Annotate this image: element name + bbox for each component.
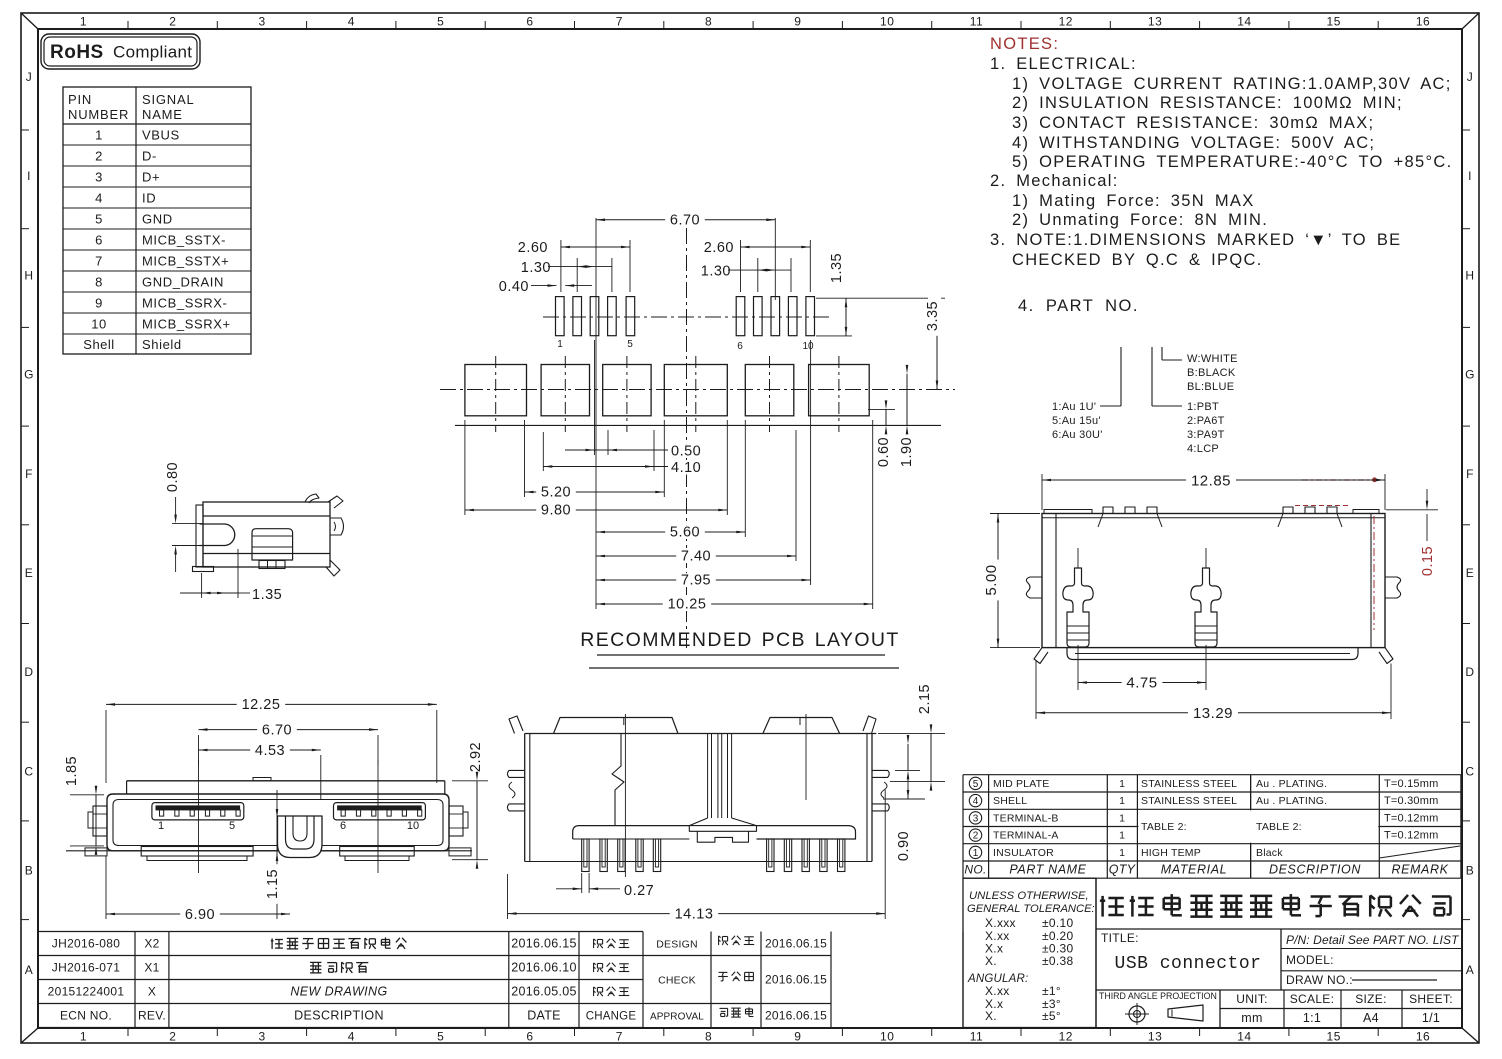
svg-text:2:PA6T: 2:PA6T	[1187, 415, 1225, 427]
svg-text:X.: X.	[985, 954, 997, 968]
svg-text:T=0.15mm: T=0.15mm	[1384, 778, 1438, 790]
svg-text:Au . PLATING.: Au . PLATING.	[1256, 795, 1327, 807]
dim 12.85	[1041, 474, 1043, 510]
svg-text:6: 6	[340, 820, 346, 832]
rear view solder post left	[1063, 568, 1093, 647]
rear view corner feet	[1034, 648, 1048, 664]
front view right ear	[449, 806, 463, 836]
svg-text:11: 11	[970, 1030, 983, 1044]
side view bottom right claw	[326, 560, 340, 576]
svg-text:9: 9	[95, 296, 103, 311]
svg-text:E: E	[25, 566, 34, 580]
svg-text:SIZE:: SIZE:	[1355, 992, 1387, 1006]
svg-text:2: 2	[169, 15, 176, 29]
svg-text:5: 5	[95, 212, 103, 227]
projection cell	[1096, 989, 1461, 991]
svg-text:NO.: NO.	[964, 863, 986, 877]
svg-text:5: 5	[627, 339, 633, 350]
front view shell	[107, 794, 449, 851]
svg-text:GENERAL TOLERANCE:: GENERAL TOLERANCE:	[967, 903, 1095, 915]
svg-text:MICB_SSTX-: MICB_SSTX-	[142, 233, 226, 248]
front view left ear	[93, 806, 107, 836]
rear view right clip	[1385, 577, 1401, 598]
svg-text:SIGNAL: SIGNAL	[142, 92, 194, 107]
svg-text:QTY: QTY	[1109, 863, 1137, 877]
svg-text:MATERIAL: MATERIAL	[1161, 863, 1227, 877]
rear view body	[1042, 514, 1385, 648]
dim 2.60 left	[560, 240, 562, 292]
svg-text:4.53: 4.53	[255, 743, 285, 759]
side view tongue	[200, 524, 235, 546]
dim 0.27	[581, 873, 583, 893]
svg-text:MICB_SSRX-: MICB_SSRX-	[142, 296, 227, 311]
side view contact block	[252, 529, 293, 560]
svg-text:13: 13	[1148, 15, 1162, 29]
svg-text:1: 1	[95, 128, 103, 143]
svg-text:INSULATOR: INSULATOR	[993, 847, 1054, 859]
bottom view center bridge	[707, 734, 709, 819]
title cell	[1096, 928, 1461, 930]
svg-text:Au . PLATING.: Au . PLATING.	[1256, 778, 1327, 790]
svg-text:10: 10	[802, 341, 814, 352]
svg-text:2: 2	[95, 149, 103, 164]
dim 2.60 right	[740, 240, 742, 292]
svg-text:RECOMMENDED PCB LAYOUT: RECOMMENDED PCB LAYOUT	[580, 629, 899, 651]
unit scale size sheet	[1283, 990, 1285, 1028]
bottom view top plateaus	[554, 718, 679, 734]
svg-text:1: 1	[973, 848, 979, 859]
svg-text:9: 9	[794, 1030, 801, 1044]
svg-text:1.90: 1.90	[899, 437, 915, 467]
svg-text:1.30: 1.30	[521, 260, 551, 276]
dim 4.53 front	[320, 755, 322, 800]
svg-text:X.xx: X.xx	[985, 984, 1010, 998]
svg-text:9: 9	[794, 15, 801, 29]
svg-text:TABLE 2:: TABLE 2:	[1256, 821, 1302, 833]
svg-text:10: 10	[407, 820, 419, 832]
dim 12.25 front	[105, 710, 107, 783]
svg-text:1:Au 1U': 1:Au 1U'	[1052, 401, 1096, 413]
svg-text:MID PLATE: MID PLATE	[993, 778, 1049, 790]
dim 6.70 top	[595, 218, 597, 300]
svg-text:20151224001: 20151224001	[48, 985, 125, 999]
dim 7.40	[795, 430, 797, 561]
svg-text:0.90: 0.90	[896, 831, 912, 861]
svg-text:NEW DRAWING: NEW DRAWING	[290, 985, 387, 999]
svg-text:5.20: 5.20	[541, 485, 571, 501]
svg-text:2.92: 2.92	[468, 742, 484, 772]
svg-text:T=0.12mm: T=0.12mm	[1384, 830, 1438, 842]
side view body	[203, 502, 330, 567]
side view right clip	[330, 518, 344, 535]
dim 5.00	[990, 513, 1040, 515]
rear view red revision marks	[1295, 505, 1350, 507]
svg-text:4: 4	[348, 1030, 355, 1044]
svg-text:H: H	[1465, 268, 1474, 282]
side view foot	[193, 567, 214, 572]
svg-text:GND_DRAIN: GND_DRAIN	[142, 275, 224, 290]
svg-text:5.60: 5.60	[670, 525, 700, 541]
svg-text:J: J	[1467, 70, 1474, 84]
svg-text:NUMBER: NUMBER	[68, 107, 129, 122]
square centerlines	[495, 356, 497, 432]
svg-text:X1: X1	[144, 961, 159, 975]
svg-text:DESIGN: DESIGN	[656, 939, 697, 951]
bottom view left notch	[612, 734, 624, 827]
svg-text:1:1: 1:1	[1303, 1011, 1321, 1025]
svg-text:B: B	[25, 864, 34, 878]
svg-text:4.75: 4.75	[1126, 675, 1157, 692]
svg-text:3: 3	[973, 813, 979, 824]
svg-text:2.15: 2.15	[917, 684, 933, 714]
svg-text:VBUS: VBUS	[142, 128, 180, 143]
svg-text:5.00: 5.00	[983, 564, 1000, 595]
svg-text:T=0.30mm: T=0.30mm	[1384, 795, 1438, 807]
svg-text:1.85: 1.85	[64, 756, 80, 786]
dim 5.20	[524, 420, 526, 497]
svg-text:±1°: ±1°	[1042, 984, 1061, 998]
dim 0.90	[895, 769, 920, 771]
svg-text:3: 3	[95, 170, 103, 185]
svg-text:RoHS: RoHS	[50, 42, 104, 63]
svg-text:4: 4	[348, 15, 355, 29]
svg-text:10: 10	[880, 15, 894, 29]
svg-text:1.35: 1.35	[252, 587, 282, 603]
front view top plate	[127, 780, 445, 782]
svg-text:6.70: 6.70	[262, 723, 292, 739]
svg-text:1: 1	[80, 15, 87, 29]
svg-text:7: 7	[616, 15, 623, 29]
parts list table	[963, 774, 1461, 776]
svg-text:X.: X.	[985, 1009, 997, 1023]
dim 0.50	[594, 340, 596, 455]
svg-text:mm: mm	[1241, 1011, 1262, 1025]
svg-text:3.35: 3.35	[925, 301, 941, 331]
bottom view teeth right	[767, 839, 774, 872]
svg-text:DESCRIPTION: DESCRIPTION	[1269, 863, 1361, 877]
svg-text:1: 1	[557, 339, 563, 350]
svg-text:A: A	[25, 963, 34, 977]
svg-text:I: I	[1468, 169, 1472, 183]
svg-text:D: D	[1465, 665, 1474, 679]
svg-text:6: 6	[526, 1030, 533, 1044]
svg-text:1.15: 1.15	[265, 869, 281, 899]
svg-text:2) INSULATION RESISTANCE: 100M: 2) INSULATION RESISTANCE: 100MΩ MIN;	[1012, 94, 1403, 112]
svg-text:SCALE:: SCALE:	[1290, 992, 1335, 1006]
dim 3.35	[852, 297, 945, 299]
svg-text:F: F	[1466, 467, 1474, 481]
svg-text:12: 12	[1059, 15, 1073, 29]
svg-text:CHANGE: CHANGE	[586, 1011, 637, 1023]
svg-text:PART NAME: PART NAME	[1009, 863, 1086, 877]
svg-text:STAINLESS STEEL: STAINLESS STEEL	[1141, 795, 1237, 807]
svg-text:I: I	[27, 169, 31, 183]
svg-text:1:PBT: 1:PBT	[1187, 401, 1219, 413]
svg-text:1) VOLTAGE CURRENT RATING:1.0A: 1) VOLTAGE CURRENT RATING:1.0AMP,30V AC;	[1012, 75, 1452, 93]
pin signal table	[63, 87, 251, 354]
svg-text:14: 14	[1237, 15, 1251, 29]
svg-text:10: 10	[91, 317, 106, 332]
svg-text:8: 8	[95, 275, 103, 290]
bottom view centerlines	[624, 714, 626, 877]
svg-text:2. Mechanical:: 2. Mechanical:	[990, 172, 1119, 190]
svg-text:2016.06.15: 2016.06.15	[511, 937, 577, 951]
dim 9.80	[464, 420, 466, 515]
svg-text:TERMINAL-B: TERMINAL-B	[993, 813, 1059, 825]
dim 0.60	[868, 408, 895, 410]
svg-text:8: 8	[705, 1030, 712, 1044]
svg-text:JH2016-080: JH2016-080	[52, 937, 120, 951]
svg-text:NOTES:: NOTES:	[990, 35, 1059, 53]
pad centerline horizontal	[543, 316, 830, 318]
svg-text:15: 15	[1327, 15, 1341, 29]
dim 1.30 right	[757, 258, 759, 292]
svg-text:8: 8	[705, 15, 712, 29]
svg-text:1: 1	[1119, 813, 1125, 825]
svg-text:12.85: 12.85	[1191, 473, 1231, 490]
svg-text:3) CONTACT RESISTANCE: 30mΩ MA: 3) CONTACT RESISTANCE: 30mΩ MAX;	[1012, 114, 1374, 132]
svg-text:1) Mating Force: 35N MAX: 1) Mating Force: 35N MAX	[1012, 192, 1255, 210]
svg-text:B:BLACK: B:BLACK	[1187, 367, 1236, 379]
front view base line	[66, 850, 472, 852]
svg-text:1: 1	[158, 820, 164, 832]
svg-text:0.60: 0.60	[876, 437, 892, 467]
svg-text:6.90: 6.90	[185, 907, 215, 923]
svg-text:5:Au 15u': 5:Au 15u'	[1052, 415, 1101, 427]
svg-text:GND: GND	[142, 212, 173, 227]
svg-text:C: C	[24, 764, 33, 778]
svg-text:1: 1	[1119, 795, 1125, 807]
svg-text:3: 3	[259, 1030, 266, 1044]
svg-text:6.70: 6.70	[670, 213, 700, 229]
center axis vertical dashed	[686, 228, 688, 648]
svg-text:2: 2	[973, 831, 979, 842]
svg-text:SHEET:: SHEET:	[1409, 992, 1453, 1006]
svg-text:W:WHITE: W:WHITE	[1187, 353, 1238, 365]
svg-text:G: G	[24, 368, 34, 382]
svg-text:9.80: 9.80	[541, 503, 571, 519]
svg-text:B: B	[1466, 864, 1475, 878]
rear view bottom plate	[1067, 648, 1358, 660]
svg-text:USB connector: USB connector	[1115, 954, 1262, 974]
front view center bridge	[278, 816, 323, 858]
svg-text:TABLE 2:: TABLE 2:	[1141, 821, 1187, 833]
bottom view right pins	[872, 770, 889, 777]
svg-text:15: 15	[1327, 1030, 1341, 1044]
svg-text:7: 7	[616, 1030, 623, 1044]
svg-text:CHECK: CHECK	[658, 975, 696, 987]
svg-text:BL:BLUE: BL:BLUE	[1187, 381, 1234, 393]
part number legend tree	[1120, 347, 1122, 406]
svg-text:2.60: 2.60	[518, 240, 548, 256]
svg-text:X2: X2	[144, 937, 159, 951]
svg-text:7: 7	[95, 254, 103, 269]
svg-text:2016.06.15: 2016.06.15	[765, 973, 827, 987]
svg-text:P/N: Detail See PART NO. LIST: P/N: Detail See PART NO. LIST	[1286, 933, 1460, 947]
svg-text:A4: A4	[1363, 1011, 1379, 1025]
svg-text:TERMINAL-A: TERMINAL-A	[993, 830, 1059, 842]
svg-text:NAME: NAME	[142, 107, 183, 122]
dim 7.95	[810, 340, 812, 585]
dim 4.10	[542, 432, 544, 471]
mount squares	[465, 365, 527, 416]
svg-text:2.60: 2.60	[704, 240, 734, 256]
dim 10.25	[872, 420, 874, 609]
svg-text:Shell: Shell	[83, 337, 114, 352]
rear view top tabs	[1044, 510, 1092, 514]
svg-text:0.80: 0.80	[165, 462, 181, 492]
front view port 6-10	[334, 803, 426, 820]
svg-text:H: H	[24, 268, 33, 282]
front view port 1-5	[152, 803, 244, 820]
svg-text:DESCRIPTION: DESCRIPTION	[294, 1009, 384, 1023]
svg-text:J: J	[26, 70, 33, 84]
svg-text:1.30: 1.30	[701, 264, 731, 280]
svg-text:11: 11	[970, 15, 983, 29]
svg-text:12.25: 12.25	[242, 697, 281, 713]
tolerance box	[963, 878, 1096, 1027]
svg-text:4.10: 4.10	[671, 460, 701, 476]
svg-text:5) OPERATING TEMPERATURE:-40°C: 5) OPERATING TEMPERATURE:-40°C TO +85°C.	[1012, 153, 1452, 171]
dim 13.29	[1035, 660, 1037, 719]
svg-text:CHECKED BY Q.C & IPQC.: CHECKED BY Q.C & IPQC.	[1012, 251, 1263, 269]
svg-text:UNIT:: UNIT:	[1236, 992, 1268, 1006]
bottom view foot plates	[573, 826, 690, 839]
svg-text:SHELL: SHELL	[993, 795, 1027, 807]
svg-text:MODEL:: MODEL:	[1286, 953, 1334, 967]
svg-text:REMARK: REMARK	[1391, 863, 1448, 877]
dim 6.90 front	[105, 856, 107, 919]
svg-text:1: 1	[1119, 847, 1125, 859]
front view feet	[85, 848, 107, 856]
bottom view teeth left	[582, 839, 589, 872]
dim 6.70 front	[198, 735, 200, 765]
svg-text:1: 1	[1119, 830, 1125, 842]
svg-text:6: 6	[526, 15, 533, 29]
dim 1.35 pads	[816, 297, 852, 299]
svg-text:7.40: 7.40	[681, 549, 711, 565]
svg-text:DATE: DATE	[527, 1009, 561, 1023]
svg-text:1/1: 1/1	[1422, 1011, 1440, 1025]
svg-text:0.15: 0.15	[1420, 546, 1436, 576]
svg-text:6:Au 30U': 6:Au 30U'	[1052, 429, 1103, 441]
parts table circled numbers	[969, 777, 981, 789]
svg-text:ID: ID	[142, 191, 156, 206]
dim 5.60	[595, 300, 597, 609]
svg-text:MICB_SSRX+: MICB_SSRX+	[142, 317, 231, 332]
svg-text:ECN NO.: ECN NO.	[60, 1009, 112, 1023]
svg-text:HIGH TEMP: HIGH TEMP	[1141, 847, 1201, 859]
svg-text:4) WITHSTANDING VOLTAGE: 500V: 4) WITHSTANDING VOLTAGE: 500V AC;	[1012, 134, 1375, 152]
svg-text:THIRD ANGLE PROJECTION: THIRD ANGLE PROJECTION	[1099, 991, 1217, 1001]
svg-text:0.27: 0.27	[624, 883, 654, 899]
svg-text:±0.10: ±0.10	[1042, 916, 1073, 930]
svg-text:MICB_SSTX+: MICB_SSTX+	[142, 254, 229, 269]
svg-text:12: 12	[1059, 1030, 1073, 1044]
RoHS compliant badge	[41, 34, 200, 69]
svg-text:0.40: 0.40	[499, 279, 529, 295]
svg-text:5: 5	[973, 779, 979, 790]
svg-text:2016.06.15: 2016.06.15	[765, 937, 827, 951]
svg-text:DRAW NO.:: DRAW NO.:	[1286, 973, 1353, 987]
svg-text:D: D	[24, 665, 33, 679]
approval block	[710, 932, 712, 1028]
svg-text:3. NOTE:1.DIMENSIONS MARKED ‘▼: 3. NOTE:1.DIMENSIONS MARKED ‘▼’ TO BE	[990, 231, 1401, 249]
dim 1.90	[906, 374, 908, 426]
pcb edge line	[455, 424, 941, 426]
svg-text:3:PA9T: 3:PA9T	[1187, 429, 1225, 441]
svg-text:TITLE:: TITLE:	[1101, 931, 1139, 945]
revision chinese desc row2	[310, 961, 321, 963]
svg-text:3: 3	[259, 15, 266, 29]
svg-text:4. PART NO.: 4. PART NO.	[1018, 297, 1139, 315]
dim 1.30 left	[576, 258, 578, 292]
svg-text:2016.06.10: 2016.06.10	[511, 961, 577, 975]
svg-text:STAINLESS STEEL: STAINLESS STEEL	[1141, 778, 1237, 790]
svg-text:1.35: 1.35	[829, 253, 845, 283]
svg-text:±0.38: ±0.38	[1042, 954, 1073, 968]
svg-text:4: 4	[95, 191, 103, 206]
svg-text:5: 5	[437, 1030, 444, 1044]
svg-text:C: C	[1465, 764, 1474, 778]
svg-text:2: 2	[169, 1030, 176, 1044]
svg-text:1: 1	[80, 1030, 87, 1044]
svg-text:4: 4	[973, 796, 979, 807]
svg-text:14.13: 14.13	[675, 907, 714, 923]
svg-text:1: 1	[1119, 778, 1125, 790]
approver names	[718, 936, 720, 945]
revision chinese desc row1	[271, 938, 273, 949]
svg-text:13: 13	[1148, 1030, 1162, 1044]
dim 1.35 side	[201, 573, 203, 598]
bottom view top edge	[525, 733, 877, 735]
svg-text:A: A	[1466, 963, 1475, 977]
svg-text:10.25: 10.25	[668, 597, 707, 613]
svg-text:REV.: REV.	[138, 1009, 166, 1023]
svg-text:X.xxx: X.xxx	[985, 916, 1016, 930]
svg-text:APPROVAL: APPROVAL	[650, 1012, 704, 1023]
svg-text:16: 16	[1416, 1030, 1430, 1044]
side view top right claws	[305, 494, 319, 503]
svg-text:6: 6	[737, 341, 743, 352]
svg-text:G: G	[1465, 368, 1475, 382]
svg-text:JH2016-071: JH2016-071	[52, 961, 120, 975]
front view centerlines	[198, 760, 200, 873]
svg-text:2016.05.05: 2016.05.05	[511, 985, 577, 999]
pcb layout pads left group	[556, 297, 565, 336]
svg-text:E: E	[1466, 566, 1475, 580]
svg-text:UNLESS OTHERWISE,: UNLESS OTHERWISE,	[969, 890, 1089, 902]
revision table	[38, 931, 643, 933]
company name	[1095, 878, 1097, 1027]
svg-text:2016.06.15: 2016.06.15	[765, 1009, 827, 1023]
svg-text:5: 5	[437, 15, 444, 29]
front view bottom tabs	[141, 847, 253, 857]
svg-text:14: 14	[1237, 1030, 1251, 1044]
svg-text:D+: D+	[142, 170, 160, 185]
svg-text:1. ELECTRICAL:: 1. ELECTRICAL:	[990, 55, 1137, 73]
svg-text:T=0.12mm: T=0.12mm	[1384, 813, 1438, 825]
svg-text:F: F	[25, 467, 33, 481]
svg-text:13.29: 13.29	[1193, 705, 1233, 722]
svg-text:Shield: Shield	[142, 337, 182, 352]
bottom view walls	[524, 734, 526, 862]
side view left plate	[196, 505, 203, 567]
dim 4.75	[1077, 645, 1079, 690]
svg-text:Compliant: Compliant	[113, 43, 192, 62]
dim 0.15	[1386, 509, 1438, 511]
svg-text:0.50: 0.50	[671, 444, 701, 460]
